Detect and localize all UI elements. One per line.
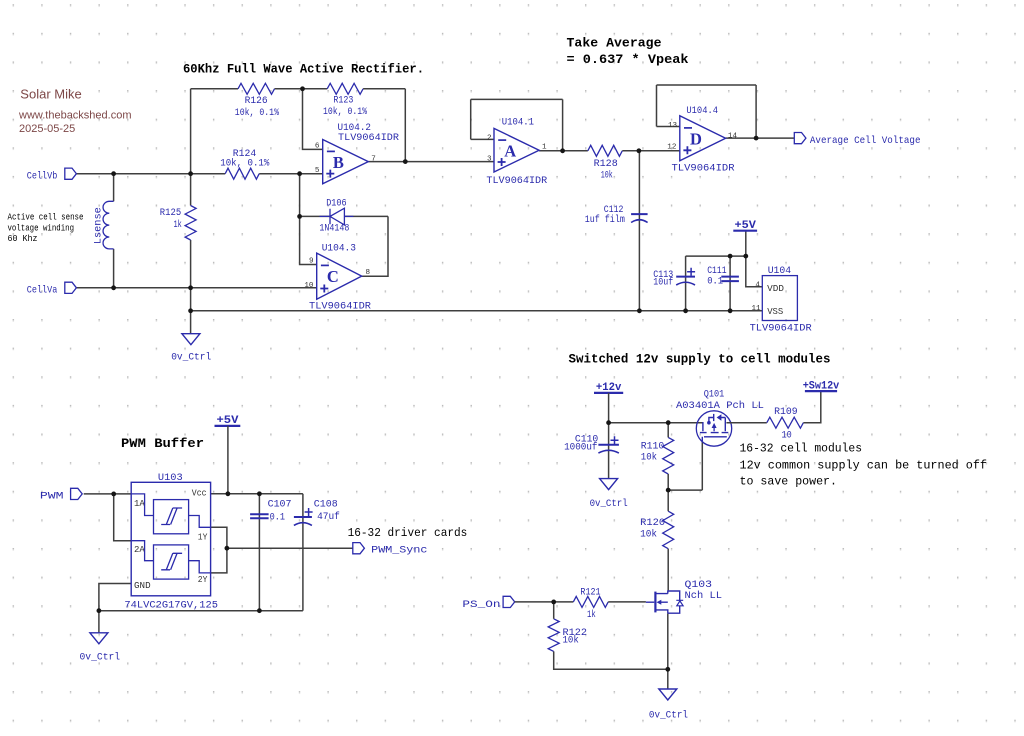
svg-text:0v_Ctrl: 0v_Ctrl <box>80 652 121 664</box>
op-amp U104.1 A <box>494 128 539 172</box>
svg-text:10k, 0.1%: 10k, 0.1% <box>235 107 280 119</box>
resistor R123 <box>327 83 363 94</box>
wire R124 to pin5 <box>259 173 323 175</box>
Q101 channel <box>700 432 728 434</box>
wire C112 through <box>638 151 640 311</box>
svg-text:C: C <box>327 267 339 286</box>
port CellVa <box>65 282 77 293</box>
svg-text:1: 1 <box>542 144 547 152</box>
junction D106 node <box>297 214 302 219</box>
wire R120 top <box>667 490 669 511</box>
capacitor C107 <box>250 514 269 518</box>
svg-text:16-32 driver cards: 16-32 driver cards <box>348 526 468 540</box>
svg-text:= 0.637 * Vpeak: = 0.637 * Vpeak <box>567 52 689 67</box>
svg-text:1Y: 1Y <box>198 532 208 542</box>
svg-text:R128: R128 <box>594 158 618 170</box>
junction Lsense top <box>111 171 116 176</box>
svg-text:10: 10 <box>304 282 314 290</box>
wire C108 through <box>302 494 304 611</box>
wire R123 down to B output <box>404 89 406 162</box>
svg-text:74LVC2G17GV,125: 74LVC2G17GV,125 <box>124 600 218 612</box>
wire Q103 source down <box>667 613 669 689</box>
wire R122 bottom rail <box>554 651 668 669</box>
junction PWM branch <box>111 492 116 497</box>
wire R109 to +Sw12v <box>803 391 820 423</box>
wire C110 through <box>608 423 610 479</box>
U103 internal wires <box>131 494 210 573</box>
svg-text:60Khz Full Wave Active Rectifi: 60Khz Full Wave Active Rectifier. <box>183 62 424 77</box>
op-amp U104.2 B <box>323 140 369 184</box>
svg-text:16-32 cell modules: 16-32 cell modules <box>740 442 863 456</box>
svg-text:10k, 0.1%: 10k, 0.1% <box>323 106 368 118</box>
junction R128 C112 <box>637 148 642 153</box>
ground 0v_Ctrl gnd pwm <box>90 633 108 644</box>
svg-text:+5V: +5V <box>735 220 757 232</box>
IC U103 74LVC2G17 <box>131 482 210 596</box>
wire R128 to D pin12 <box>622 150 680 152</box>
wire R123 right <box>363 88 405 90</box>
wire A out to R128 <box>539 150 588 152</box>
junction +12v node <box>606 420 611 425</box>
junction R125 top <box>188 171 193 176</box>
wire GND out <box>99 584 131 611</box>
svg-text:TLV9064IDR: TLV9064IDR <box>672 163 736 175</box>
svg-text:4: 4 <box>755 282 760 290</box>
wire +12v down <box>608 393 610 423</box>
svg-text:2A: 2A <box>134 545 145 555</box>
svg-text:VSS: VSS <box>767 307 783 317</box>
svg-text:TLV9064IDR: TLV9064IDR <box>486 175 547 187</box>
resistor R120 <box>663 511 674 549</box>
Q103 body diode <box>676 600 683 606</box>
port Average Cell Voltage <box>794 133 806 144</box>
junction C112 rail <box>637 308 642 313</box>
svg-text:U104.1: U104.1 <box>502 116 534 128</box>
junction gnd rail <box>97 608 102 613</box>
capacitor C113 <box>676 276 695 278</box>
svg-text:R121: R121 <box>580 586 600 598</box>
wire 2Y out <box>211 548 227 573</box>
svg-text:13: 13 <box>668 122 678 130</box>
svg-text:0v_Ctrl: 0v_Ctrl <box>649 710 688 722</box>
resistor R128 <box>588 145 623 156</box>
wire Q101 to R109 <box>726 422 766 424</box>
svg-text:10k: 10k <box>640 529 657 541</box>
junction rail left <box>188 308 193 313</box>
wire Lsense top <box>113 174 115 202</box>
resistor R125 <box>185 206 196 241</box>
wire D feedback <box>657 85 757 138</box>
Q103 structure <box>646 590 680 613</box>
svg-text:6: 6 <box>315 143 320 151</box>
power +5V <box>733 230 757 232</box>
svg-text:2025-05-25: 2025-05-25 <box>19 123 75 135</box>
wire A feedback <box>471 99 563 150</box>
svg-text:10: 10 <box>782 429 792 441</box>
svg-text:0v_Ctrl: 0v_Ctrl <box>590 498 628 510</box>
svg-text:60 Khz: 60 Khz <box>8 233 38 244</box>
wire pin5 node down to pin9 <box>300 174 317 265</box>
junction pin5 node <box>297 171 302 176</box>
wire C113 through <box>685 256 687 311</box>
Q101 gate plate <box>702 437 727 442</box>
junction Lsense bottom <box>111 285 116 290</box>
transistor Q101 PMOS <box>696 411 731 446</box>
svg-text:CellVa: CellVa <box>27 285 58 297</box>
junction A out <box>560 148 565 153</box>
wire PWM_Sync <box>227 547 353 549</box>
wire R125 top <box>190 174 192 206</box>
junction Vcc +5V <box>226 491 231 496</box>
svg-text:5: 5 <box>315 167 320 175</box>
svg-text:GND: GND <box>134 581 151 591</box>
junction C111 rail <box>728 308 733 313</box>
wire Lsense bottom <box>113 249 115 288</box>
wire +5V down <box>227 426 229 494</box>
port PWM <box>71 488 83 499</box>
wire R121 to gate <box>608 601 646 603</box>
svg-text:PWM_Sync: PWM_Sync <box>371 545 427 557</box>
wire CellVa to pin10 <box>76 287 316 289</box>
svg-text:U104.3: U104.3 <box>322 242 356 254</box>
wire to D106 cathode <box>300 215 330 217</box>
wire C111 through <box>729 256 731 311</box>
svg-text:2: 2 <box>487 135 492 143</box>
svg-text:47uf: 47uf <box>317 511 340 523</box>
svg-text:+Sw12v: +Sw12v <box>803 380 840 392</box>
wire C107 through <box>258 494 260 611</box>
junction C107 bottom <box>257 608 262 613</box>
wire 12v to Q101 <box>609 422 703 424</box>
resistor R124 <box>225 168 259 179</box>
svg-text:PS_On: PS_On <box>462 599 500 611</box>
svg-text:14: 14 <box>728 133 738 141</box>
svg-text:Nch LL: Nch LL <box>685 590 723 602</box>
capacitor C111 <box>721 277 739 282</box>
svg-text:10uf: 10uf <box>653 277 673 289</box>
port PWM_Sync <box>353 543 365 554</box>
svg-text:A03401A Pch LL: A03401A Pch LL <box>676 400 764 412</box>
svg-text:10k: 10k <box>563 635 579 647</box>
wire to gnd symbol <box>98 611 100 633</box>
svg-text:1k: 1k <box>587 609 596 621</box>
svg-text:TLV9064IDR: TLV9064IDR <box>309 301 372 313</box>
ground 0v_Ctrl gnd Q103 <box>659 689 677 700</box>
svg-text:+12v: +12v <box>596 382 622 394</box>
svg-text:3: 3 <box>487 155 492 163</box>
wire R126 left <box>191 88 238 90</box>
wire gate link <box>668 489 702 491</box>
svg-text:Active cell sense: Active cell sense <box>8 212 84 223</box>
svg-text:PWM: PWM <box>40 490 64 502</box>
capacitor C108 <box>294 516 312 518</box>
svg-text:1000uf: 1000uf <box>564 442 597 454</box>
svg-text:to save power.: to save power. <box>740 475 838 489</box>
resistor R126 <box>238 83 275 94</box>
wire PS_On to R121 <box>515 601 574 603</box>
junction C107 top <box>257 491 262 496</box>
svg-text:www.thebackshed.com: www.thebackshed.com <box>18 110 132 122</box>
svg-text:1A: 1A <box>134 499 145 509</box>
wire Vcc rail <box>211 493 303 495</box>
svg-text:10k, 0.1%: 10k, 0.1% <box>220 158 270 170</box>
svg-text:0v_Ctrl: 0v_Ctrl <box>171 352 211 364</box>
op-amp U104.4 D <box>680 116 726 161</box>
svg-text:1k: 1k <box>174 219 182 231</box>
wire PWM in <box>84 493 132 495</box>
svg-text:Switched 12v supply to cell mo: Switched 12v supply to cell modules <box>569 352 831 367</box>
svg-text:B: B <box>333 153 344 172</box>
wire R110 bottom <box>667 474 669 490</box>
power +Sw12v <box>805 390 837 392</box>
junction R125 CellVa <box>188 285 193 290</box>
resistor R122 <box>548 619 559 652</box>
schmitt buffer 1 <box>154 500 189 534</box>
junction gate node <box>666 488 671 493</box>
wire +5V branch <box>686 255 746 257</box>
junction C111 top <box>728 254 733 259</box>
svg-text:R120: R120 <box>640 517 665 529</box>
svg-text:CellVb: CellVb <box>27 171 58 183</box>
wire PWM branch 2A <box>114 494 132 541</box>
svg-text:0.1: 0.1 <box>707 275 723 287</box>
power +5V pwm <box>215 425 241 427</box>
capacitor C112 <box>631 213 648 215</box>
svg-text:PWM Buffer: PWM Buffer <box>121 436 204 451</box>
wire D106 to C output <box>362 216 388 276</box>
svg-text:+5V: +5V <box>217 415 239 427</box>
svg-text:D: D <box>690 129 702 148</box>
junction D out <box>754 136 759 141</box>
wire +5V to VDD <box>746 231 763 287</box>
svg-text:TLV9064IDR: TLV9064IDR <box>750 323 813 335</box>
junction source rail <box>665 667 670 672</box>
wire D pin13 <box>657 126 680 128</box>
resistor R121 <box>573 596 608 607</box>
svg-text:7: 7 <box>371 156 376 164</box>
svg-text:12: 12 <box>667 144 677 152</box>
wire R120 to Q103 <box>667 549 669 591</box>
svg-text:C107: C107 <box>268 499 292 511</box>
resistor R110 <box>663 437 674 474</box>
IC U104 power box <box>762 276 797 321</box>
wire R110 top <box>667 423 669 438</box>
svg-text:U104.4: U104.4 <box>686 105 718 117</box>
svg-text:voltage winding: voltage winding <box>8 222 75 233</box>
svg-text:C108: C108 <box>314 499 338 511</box>
svg-text:Vcc: Vcc <box>192 489 207 499</box>
diode D106 <box>320 208 354 225</box>
capacitor C110 <box>598 444 619 446</box>
svg-text:R123: R123 <box>333 95 353 107</box>
svg-text:Lsense: Lsense <box>93 207 105 244</box>
wire B output to A pin3 <box>368 161 494 163</box>
svg-text:U104: U104 <box>768 265 791 277</box>
svg-text:10k: 10k <box>601 170 613 182</box>
power +12v <box>594 392 623 394</box>
op-amp U104.3 C <box>317 253 362 299</box>
ground 0v_Ctrl gnd C110 <box>600 479 618 490</box>
wire R125 bottom to gnd <box>190 240 192 334</box>
wire R126-R123 <box>275 88 328 90</box>
svg-text:0.1: 0.1 <box>270 512 285 524</box>
wire gnd rail pwm <box>99 610 303 612</box>
svg-text:U103: U103 <box>158 472 183 484</box>
svg-text:Q101: Q101 <box>704 388 725 400</box>
svg-text:12v common supply can be turne: 12v common supply can be turned off <box>740 459 988 473</box>
svg-text:2Y: 2Y <box>198 575 208 585</box>
svg-text:1uf film: 1uf film <box>585 214 625 226</box>
svg-text:1N4148: 1N4148 <box>319 223 349 235</box>
svg-text:R125: R125 <box>160 207 181 219</box>
svg-text:10k: 10k <box>641 451 657 463</box>
wire left vertical <box>190 89 192 174</box>
inductor Lsense <box>103 201 114 249</box>
wire CellVb <box>76 173 225 175</box>
svg-text:D106: D106 <box>326 198 346 210</box>
svg-text:8: 8 <box>366 269 371 277</box>
wire Q101 gate <box>701 441 703 490</box>
junction R126-R123 <box>300 86 305 91</box>
svg-text:9: 9 <box>309 258 314 266</box>
port PS_On <box>503 596 515 607</box>
svg-text:VDD: VDD <box>767 284 784 294</box>
resistor R109 <box>767 417 804 428</box>
svg-text:TLV9064IDR: TLV9064IDR <box>338 132 400 144</box>
wire 0v rail <box>191 310 763 312</box>
wire 1Y out <box>211 527 227 548</box>
ground 0v_Ctrl gnd top <box>182 334 200 345</box>
junction R110 top <box>666 420 671 425</box>
wire D106 anode <box>344 215 388 217</box>
svg-text:11: 11 <box>751 305 761 313</box>
wire R122 top <box>553 602 555 619</box>
wire A pin2 <box>471 138 494 140</box>
svg-text:Average Cell Voltage: Average Cell Voltage <box>810 135 921 147</box>
Q103 gate bar <box>654 592 656 613</box>
junction 1Y2Y <box>225 546 230 551</box>
svg-text:R109: R109 <box>774 406 798 418</box>
svg-text:Solar Mike: Solar Mike <box>20 87 81 102</box>
junction R121 R122 <box>551 600 556 605</box>
port CellVb <box>65 168 77 179</box>
Q101 bars <box>703 418 725 432</box>
junction C113 rail <box>683 308 688 313</box>
svg-text:A: A <box>504 141 516 160</box>
svg-text:R126: R126 <box>245 95 268 107</box>
junction +5V node <box>743 254 748 259</box>
svg-text:Take Average: Take Average <box>567 36 662 51</box>
junction B out <box>403 159 408 164</box>
wire D output <box>726 137 795 139</box>
schmitt buffer 2 <box>154 545 189 579</box>
wire to pin6 <box>303 89 323 150</box>
